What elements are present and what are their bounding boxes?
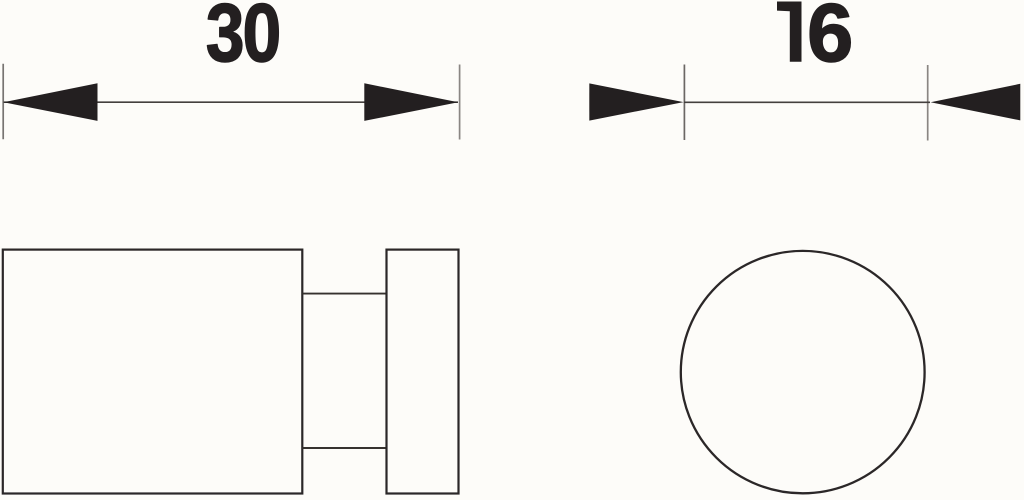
dimension 30: right extension line <box>459 65 461 140</box>
dimension 30: left extension line <box>2 64 4 140</box>
svg-text:6: 6 <box>807 0 853 79</box>
dimension 16: left extension line <box>683 65 685 141</box>
dimension 16: right extension line <box>927 65 929 141</box>
dimension 16: right arrowhead (outside, pointing left) <box>931 84 1021 121</box>
dimension 16: value label digit "1" <box>777 2 802 62</box>
front view: knob outline circle <box>681 251 925 493</box>
side view: neck bottom line <box>302 447 386 449</box>
side view: mounting plate rectangle <box>387 250 459 494</box>
side view: neck top line <box>302 293 386 295</box>
dimension 30: dimension line <box>4 101 459 103</box>
dimension 30: left arrowhead <box>4 83 98 121</box>
svg-text:30: 30 <box>206 0 280 79</box>
dimension 16: left arrowhead (outside, pointing right) <box>589 83 683 120</box>
dimension 16: dimension line <box>684 101 930 103</box>
side view: knob head rectangle <box>3 250 303 494</box>
dimension 30: right arrowhead <box>364 83 458 121</box>
